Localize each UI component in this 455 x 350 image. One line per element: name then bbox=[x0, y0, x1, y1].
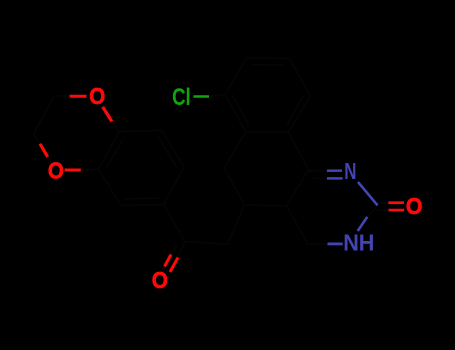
wire: top benzene ring (chlorophenyl) bbox=[225, 58, 310, 132]
wire: heterocycle C5-C6 bbox=[287, 206, 307, 243]
bond C6-N1 (blue half) bbox=[328, 242, 343, 245]
bond C2=O4 double line upper (red half) bbox=[388, 201, 404, 204]
svg-text:O: O bbox=[406, 193, 423, 219]
svg-text:NH: NH bbox=[343, 230, 374, 256]
svg-text:N: N bbox=[344, 158, 356, 184]
bond C=O3 double line 1 (red half) bbox=[165, 255, 172, 267]
wire: O2 to benzene vertex bbox=[81, 169, 99, 170]
svg-text:O: O bbox=[152, 267, 168, 293]
bond C2-N1 (blue half) bbox=[358, 217, 368, 231]
wire: benzene inner aromatic line 3 bbox=[106, 140, 122, 169]
bond C4=N3 double line upper (blue half) bbox=[327, 169, 342, 172]
bond O2-C(aryl) (red half) bbox=[65, 169, 81, 172]
svg-text:O: O bbox=[48, 157, 64, 183]
bond Cl-C(phenyl) (green half) bbox=[193, 95, 209, 98]
svg-text:O: O bbox=[89, 83, 105, 109]
wire: benzene inner aromatic line 2 bbox=[124, 197, 158, 200]
wire: ketone carbon to CH2 bbox=[185, 242, 228, 245]
wire: Cl bond carbon half bbox=[209, 95, 225, 97]
wire: O1 to benzene vertex bbox=[112, 122, 119, 132]
wire: C2 to N1 carbon half bbox=[367, 206, 377, 217]
wire: top benzene inner aromatic line 1 bbox=[252, 64, 284, 66]
wire: C6 to NH carbon half bbox=[307, 243, 327, 245]
wire: benzodioxane benzene ring bbox=[99, 131, 184, 206]
svg-text:Cl: Cl bbox=[172, 84, 191, 111]
wire: top benzene inner aromatic line 2 bbox=[287, 96, 303, 124]
bond C2=O4 double line lower (red half) bbox=[389, 209, 405, 212]
bond O1-C(aryl) (red half) bbox=[103, 107, 112, 122]
wire: dioxane ring carbon bonds O1-CH2-CH2-O2 bbox=[34, 95, 97, 170]
wire: CH2 to middle ring bbox=[228, 205, 245, 244]
bond C4=N3 double line lower (blue half) bbox=[327, 177, 343, 180]
wire: top benzene inner aromatic line 3 bbox=[232, 95, 248, 124]
bond C=O3 double line 2 (red half) bbox=[170, 258, 178, 273]
wire: benzene inner aromatic line 1 bbox=[159, 138, 177, 167]
bond O1-CH2 (red half) bbox=[70, 95, 87, 98]
wire: C4=N3 carbon halves bbox=[308, 171, 327, 179]
wire: ketone C=O carbon halves bbox=[171, 242, 185, 257]
wire: middle carbocycle ring bbox=[224, 132, 308, 206]
wire: benzene V4 to ketone carbon bbox=[164, 205, 185, 242]
wire: C2=O4 carbon halves bbox=[378, 203, 389, 210]
bond CH2-O2 (red half) bbox=[40, 144, 48, 157]
bond N3-C2 (blue half) bbox=[358, 182, 378, 205]
